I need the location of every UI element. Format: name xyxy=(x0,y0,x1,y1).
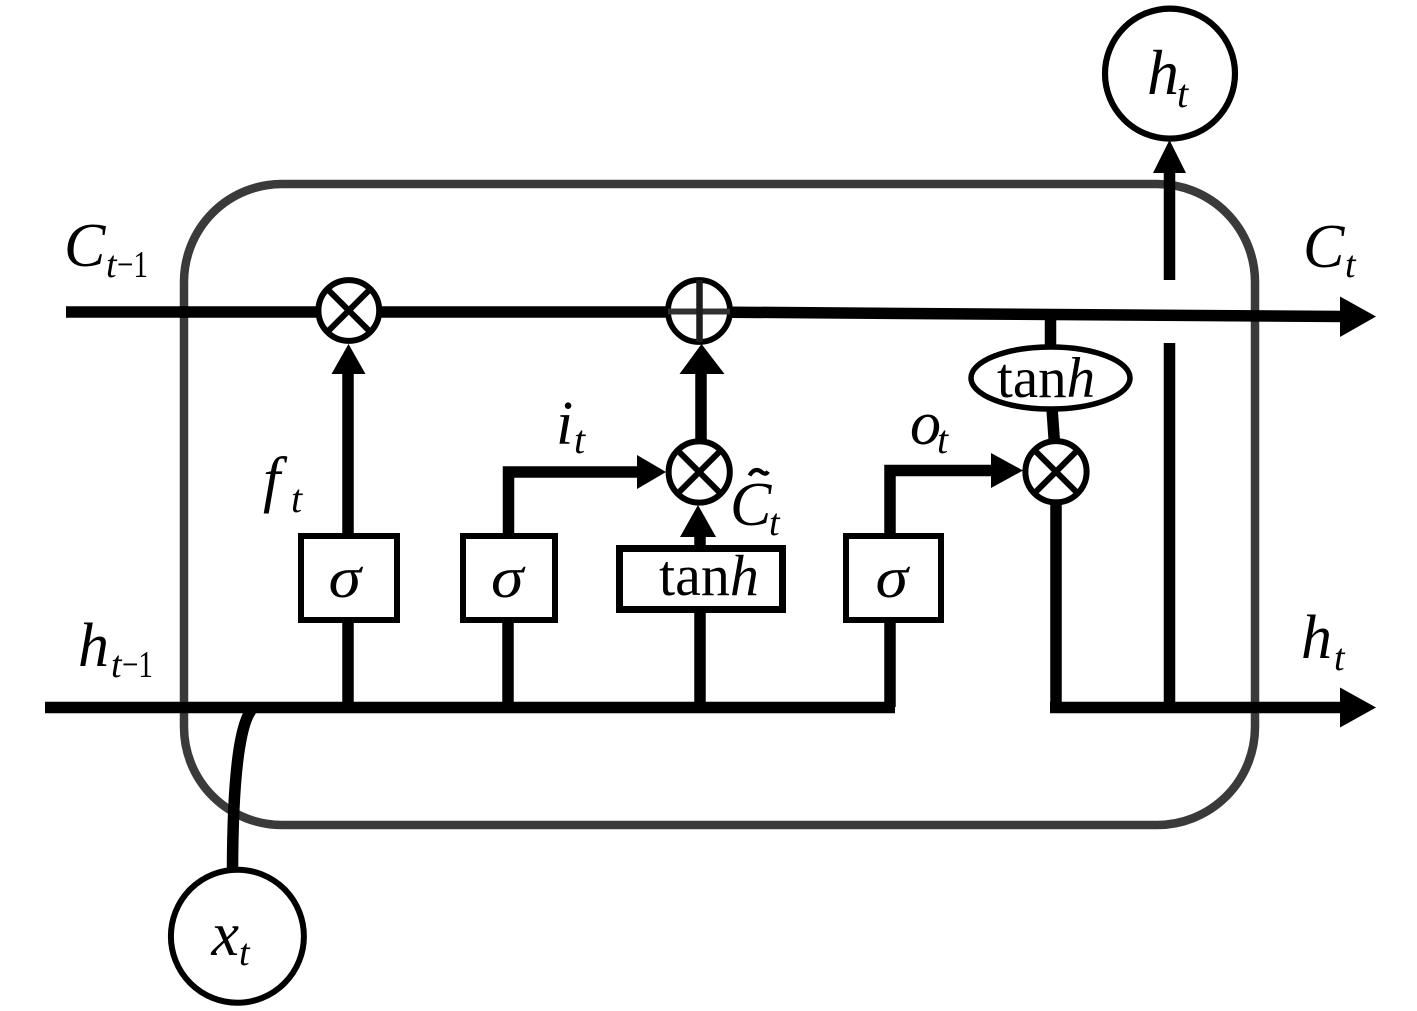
multiply node X3 (output gate) xyxy=(1025,441,1086,502)
arrowhead: h_t output right xyxy=(1340,688,1376,728)
svg-text:tanh: tanh xyxy=(659,543,759,608)
svg-text:t: t xyxy=(937,417,949,462)
sigma box 3 (output gate) xyxy=(846,536,941,620)
svg-text:i: i xyxy=(556,390,573,458)
arrow: o_t elbow from sigma3 into multiply node 3 xyxy=(890,471,996,534)
svg-text:−1: −1 xyxy=(122,644,153,686)
wire: h_{t-1} line (bottom horizontal, left part) xyxy=(45,702,895,714)
svg-text:σ: σ xyxy=(329,545,364,610)
svg-text:C: C xyxy=(1303,213,1345,281)
arrow: i_t elbow from sigma2 into multiply node 2 xyxy=(509,472,641,533)
add node (cell state sum) xyxy=(668,280,730,342)
arrow: h_t vertical upper segment into h_t circle xyxy=(1164,170,1176,280)
sigma box 1 (forget gate) xyxy=(301,536,397,620)
node h_t circle (top output) xyxy=(1105,9,1235,139)
wire: multiply node 3 down to h output segment xyxy=(1050,500,1062,712)
svg-text:h: h xyxy=(1147,37,1179,108)
svg-text:t: t xyxy=(574,417,586,462)
svg-text:f: f xyxy=(263,446,288,514)
svg-text:h: h xyxy=(1301,604,1332,672)
wire: h_t vertical lower segment xyxy=(1164,343,1176,712)
svg-text:t: t xyxy=(239,932,251,974)
LSTM cell body rounded border xyxy=(184,184,1255,825)
tanh box (candidate) xyxy=(620,543,783,610)
svg-text:σ: σ xyxy=(491,545,526,610)
wire: h output segment (bottom right) xyxy=(1050,702,1344,714)
svg-text:C: C xyxy=(730,471,772,539)
arrow: multiply node 2 up into add node xyxy=(695,372,707,441)
wire: sigma1 stem down to h line xyxy=(342,623,354,707)
svg-text:C: C xyxy=(64,212,106,280)
svg-text:x: x xyxy=(211,901,240,969)
arrow: f_t from sigma1 up into multiply node xyxy=(342,370,354,533)
wire: sigma2 stem down to h line xyxy=(502,623,514,707)
svg-text:t: t xyxy=(1177,71,1189,116)
wire: tanh ellipse down to multiply node 3 xyxy=(1052,408,1055,444)
svg-text:h: h xyxy=(78,612,109,680)
svg-text:σ: σ xyxy=(876,545,911,610)
svg-text:t: t xyxy=(1334,637,1346,679)
tanh ellipse (output activation) xyxy=(971,347,1130,410)
multiply node X1 (forget gate) xyxy=(318,280,379,341)
svg-text:t: t xyxy=(291,476,303,521)
wire: tanh box stem down to h line xyxy=(694,611,706,707)
svg-text:t: t xyxy=(769,502,781,544)
arrow: tanh box output up into multiply node 2 xyxy=(694,534,706,546)
svg-text:−1: −1 xyxy=(117,244,148,286)
sigma box 2 (input gate) xyxy=(463,536,555,620)
arrowhead: C_t output xyxy=(1340,297,1376,338)
wire: x_t connector curve xyxy=(233,707,255,870)
wire: C line (cell state, top horizontal) xyxy=(66,312,1344,317)
multiply node X2 (input gate) xyxy=(669,441,730,502)
svg-text:tanh: tanh xyxy=(997,347,1095,410)
node x_t circle (input) xyxy=(171,870,304,1003)
wire: C line down into tanh ellipse xyxy=(1045,310,1057,350)
svg-text:t: t xyxy=(1345,244,1357,286)
wire: sigma3 stem down to h line xyxy=(884,623,896,707)
